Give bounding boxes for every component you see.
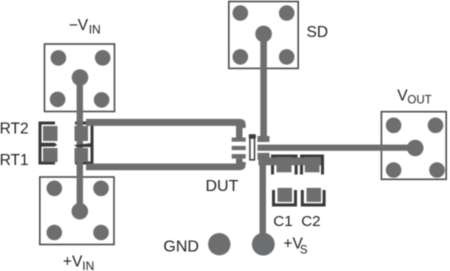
svg-text:DUT: DUT: [206, 178, 239, 195]
svg-text:+V: +V: [63, 254, 83, 271]
svg-text:OUT: OUT: [407, 94, 431, 106]
svg-text:S: S: [300, 245, 308, 257]
svg-text:IN: IN: [89, 22, 101, 36]
svg-text:IN: IN: [82, 259, 94, 271]
svg-text:RT1: RT1: [0, 152, 29, 169]
svg-text:SD: SD: [307, 24, 329, 41]
svg-text:C1: C1: [273, 213, 292, 230]
svg-text:C2: C2: [301, 213, 320, 230]
svg-text:GND: GND: [163, 238, 199, 255]
svg-text:RT2: RT2: [0, 121, 29, 138]
svg-text:−V: −V: [69, 17, 89, 34]
